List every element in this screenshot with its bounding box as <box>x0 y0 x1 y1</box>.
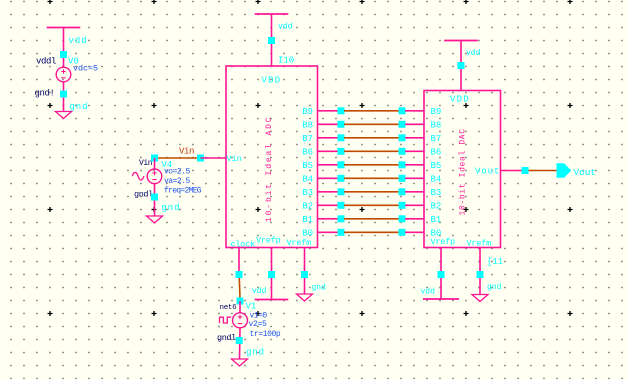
wire B9 ADC stub <box>318 110 339 112</box>
voltage source V0 <box>56 67 71 82</box>
svg-text:gnd: gnd <box>312 283 327 292</box>
node junction square B1 left <box>338 215 345 222</box>
node Vrefm pin square (ADC) <box>301 271 308 278</box>
node junction square B7 right <box>399 134 406 141</box>
wire B0 net (orange) <box>344 231 399 233</box>
svg-text:B5: B5 <box>302 161 313 171</box>
svg-text:gnd!: gnd! <box>35 88 55 98</box>
node net6 junction square <box>237 298 244 305</box>
svg-text:gndl: gndl <box>134 190 153 200</box>
svg-text:B7: B7 <box>302 134 313 144</box>
ground symbol (V0) <box>56 112 72 119</box>
svg-text:B7: B7 <box>431 134 442 144</box>
wire B5 DAC stub <box>405 164 424 166</box>
wire B7 DAC stub <box>405 137 424 139</box>
voltage source V4 <box>147 169 162 184</box>
node Vout junction square <box>522 167 529 174</box>
node junction square B4 left <box>338 175 345 182</box>
op block U: 10-bit Ideal DAC body <box>424 91 501 248</box>
wire vdd rail to V0 plus <box>63 28 65 68</box>
svg-text:[11: [11 <box>487 257 503 267</box>
svg-text:vdd: vdd <box>278 23 293 32</box>
wire B0 DAC stub <box>405 231 424 233</box>
svg-text:B6: B6 <box>431 148 442 158</box>
grid major crosses <box>48 0 573 316</box>
node junction square B3 left <box>338 188 345 195</box>
wire B5 net (orange) <box>344 164 399 166</box>
node clock pin square <box>236 271 243 278</box>
node junction square B4 right <box>399 175 406 182</box>
wire B1 ADC stub <box>318 218 339 220</box>
wire B0 ADC stub <box>318 231 339 233</box>
svg-text:B3: B3 <box>302 188 313 198</box>
power vdd rail (V0 branch) <box>47 27 81 29</box>
wire V4 minus to gnd <box>154 184 156 216</box>
svg-text:Vin: Vin <box>179 147 194 157</box>
node gnd pin square <box>60 91 67 98</box>
wire B4 net (orange) <box>344 177 399 179</box>
wire B6 ADC stub <box>318 150 339 152</box>
wire net6 square to V1 <box>239 301 241 313</box>
wire B3 DAC stub <box>405 191 424 193</box>
wire Vrefm to gnd <box>304 248 306 295</box>
node junction square B6 left <box>338 148 345 155</box>
node vdd pin square (DAC top) <box>458 62 465 69</box>
wire Vout from DAC <box>501 170 522 172</box>
power vdd bar (Vrefp DAC) <box>423 298 459 300</box>
wire B1 DAC stub <box>405 218 424 220</box>
node junction square B0 left <box>338 229 345 236</box>
wire B6 DAC stub <box>405 150 424 152</box>
node junction square at Vin wire end <box>197 155 204 162</box>
svg-text:B5: B5 <box>431 161 442 171</box>
sine icon (V4) <box>132 172 144 180</box>
svg-text:V1: V1 <box>246 301 257 311</box>
svg-text:B4: B4 <box>302 175 313 185</box>
pulse icon (V1) <box>220 317 232 323</box>
op block U: 10-bit Ideal ADC body <box>226 66 318 248</box>
node junction square B1 right <box>399 215 406 222</box>
wire V4 plus stub <box>154 158 156 169</box>
wire B3 ADC stub <box>318 191 339 193</box>
wire vdd to ADC VDD pin <box>271 14 273 66</box>
svg-text:Vrefp: Vrefp <box>431 237 456 247</box>
svg-text:Vin: Vin <box>139 159 153 168</box>
svg-text:VDD: VDD <box>450 94 470 104</box>
svg-text:VDD: VDD <box>262 75 282 85</box>
wire B9 net (orange) <box>344 110 399 112</box>
svg-text:vdd: vdd <box>252 287 267 296</box>
wire B4 ADC stub <box>318 177 339 179</box>
svg-text:Vrefp: Vrefp <box>256 236 281 246</box>
node Vrefp pin square (ADC) <box>268 271 275 278</box>
svg-text:va=2.5: va=2.5 <box>164 177 191 186</box>
voltage source V1 <box>233 313 248 328</box>
node junction square B5 left <box>338 161 345 168</box>
node junction square B7 left <box>338 134 345 141</box>
svg-text:freq=2MEG: freq=2MEG <box>164 187 202 196</box>
node junction square B9 right <box>399 107 406 114</box>
svg-text:10-bit Ideal ADC: 10-bit Ideal ADC <box>265 116 274 222</box>
svg-text:Vrefm: Vrefm <box>467 238 492 248</box>
wire Vin net (orange segment) <box>155 157 201 159</box>
svg-text:B3: B3 <box>431 188 442 198</box>
node junction square B6 right <box>399 148 406 155</box>
power vdd rail (DAC top) <box>444 40 478 42</box>
wire B9 DAC stub <box>405 110 424 112</box>
wire Vout net (orange) <box>529 170 557 172</box>
svg-text:vo=2.5: vo=2.5 <box>164 168 191 177</box>
wire clock pin stub <box>238 248 240 272</box>
node junction square at V4 plus <box>151 155 158 162</box>
svg-text:Vout: Vout <box>574 167 596 178</box>
svg-text:vddl: vddl <box>36 57 56 67</box>
node junction square B8 left <box>338 121 345 128</box>
svg-text:gnd: gnd <box>487 283 502 292</box>
wire V1 minus to gnd <box>239 328 242 359</box>
power vdd rail (ADC top) <box>255 13 289 15</box>
wire B1 net (orange) <box>344 218 399 220</box>
node junction square B8 right <box>399 121 406 128</box>
wire B2 DAC stub <box>405 204 424 206</box>
wire B6 net (orange) <box>344 150 399 152</box>
wire B2 net (orange) <box>344 204 399 206</box>
svg-text:B2: B2 <box>302 202 313 212</box>
ground symbol (Vrefm DAC) <box>472 295 488 302</box>
node junction square B0 right <box>399 229 406 236</box>
svg-text:B9: B9 <box>302 107 313 117</box>
svg-text:vdd: vdd <box>466 49 481 58</box>
svg-text:vdd: vdd <box>69 36 88 46</box>
wire Vin to ADC input <box>201 157 227 159</box>
wire Vrefm to gnd (DAC) <box>479 248 481 295</box>
svg-text:B4: B4 <box>431 175 442 185</box>
wire Vrefp to vdd <box>271 248 273 300</box>
wire B7 net (orange) <box>344 137 399 139</box>
svg-text:vdd: vdd <box>421 288 436 297</box>
node junction square B2 left <box>338 202 345 209</box>
node gnd pin square (V4) <box>151 194 158 201</box>
node junction square B2 right <box>399 202 406 209</box>
svg-text:gnd: gnd <box>246 348 265 358</box>
svg-text:Vrefm: Vrefm <box>287 238 312 248</box>
svg-text:gnd: gnd <box>70 102 89 112</box>
svg-text:B1: B1 <box>431 215 442 225</box>
node junction square B9 left <box>338 107 345 114</box>
node Vrefp pin square (DAC) <box>438 271 445 278</box>
power vdd bar (Vrefp ADC) <box>255 299 289 301</box>
wire vdd to DAC VDD pin <box>460 41 462 91</box>
svg-text:vdc=5: vdc=5 <box>73 64 98 74</box>
svg-text:10-bit Ideal DAC: 10-bit Ideal DAC <box>459 128 468 215</box>
wire net6 (orange segment) <box>238 278 241 298</box>
node vdd pin square (ADC top) <box>268 37 275 44</box>
svg-text:gnd: gnd <box>162 203 181 213</box>
svg-text:B6: B6 <box>302 148 313 158</box>
node vddl pin square <box>60 51 67 58</box>
svg-text:B8: B8 <box>431 121 442 131</box>
svg-text:clock: clock <box>231 239 256 249</box>
svg-text:Vout: Vout <box>475 167 500 177</box>
node gnd pin square (V1) <box>236 337 243 344</box>
svg-text:v2=5: v2=5 <box>249 320 268 329</box>
svg-text:B0: B0 <box>302 229 313 239</box>
node Vrefm pin square (DAC) <box>477 271 484 278</box>
node junction square B3 right <box>399 188 406 195</box>
wire Vrefp to vdd (DAC) <box>440 248 442 299</box>
svg-text:I10: I10 <box>278 56 294 66</box>
wire B7 ADC stub <box>318 137 339 139</box>
wire B4 DAC stub <box>405 177 424 179</box>
svg-text:Vin: Vin <box>227 154 242 164</box>
svg-text:gndl: gndl <box>217 333 236 343</box>
svg-text:B1: B1 <box>302 215 313 225</box>
ground symbol (Vrefm ADC) <box>297 294 313 301</box>
wire B8 DAC stub <box>405 123 424 125</box>
wire V0 minus to gnd <box>63 82 65 112</box>
ground symbol (V1) <box>232 359 248 366</box>
svg-text:B2: B2 <box>431 202 442 212</box>
svg-text:tr=100p: tr=100p <box>250 330 281 339</box>
wire B2 ADC stub <box>318 204 339 206</box>
svg-text:B9: B9 <box>431 107 442 117</box>
wire B3 net (orange) <box>344 191 399 193</box>
node junction square B5 right <box>399 161 406 168</box>
wire B8 ADC stub <box>318 123 339 125</box>
wire B5 ADC stub <box>318 164 339 166</box>
svg-text:net6: net6 <box>220 304 238 312</box>
output pin symbol Vout <box>557 163 572 177</box>
ground symbol (V4) <box>147 216 163 223</box>
wire B8 net (orange) <box>344 123 399 125</box>
svg-text:B8: B8 <box>302 121 313 131</box>
